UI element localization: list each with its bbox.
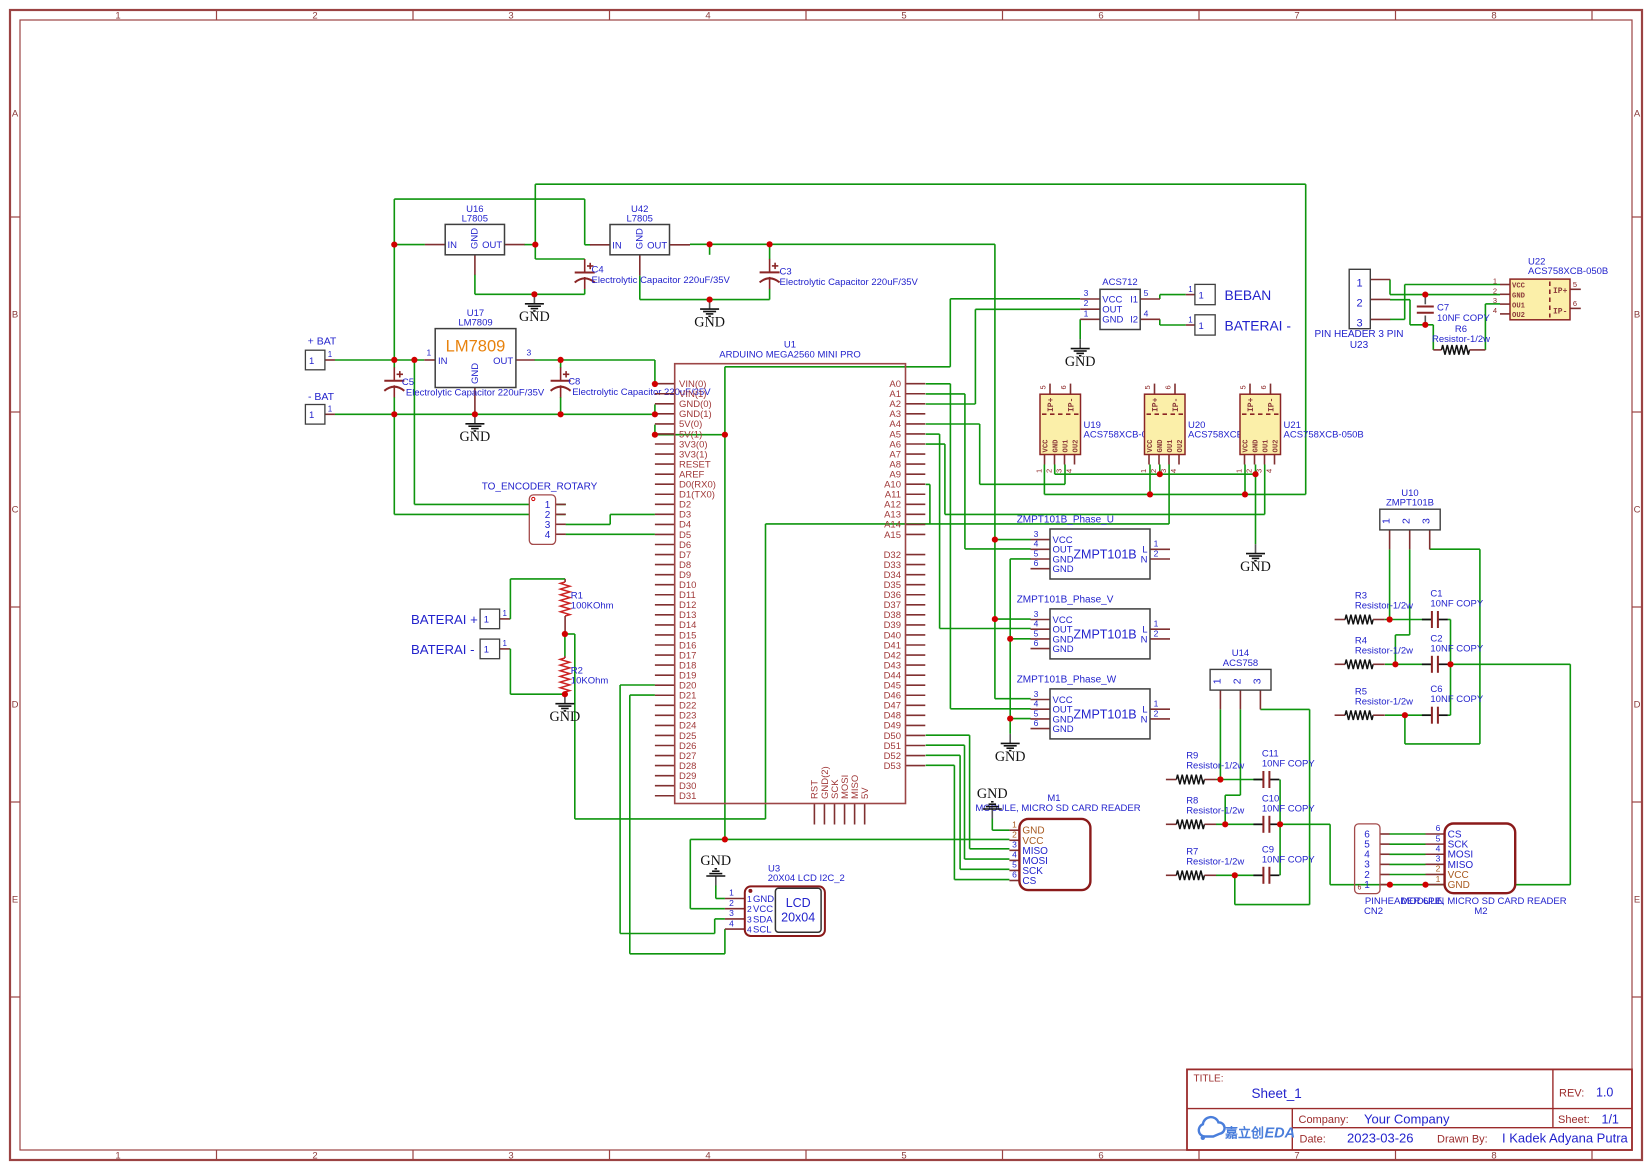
svg-text:E: E — [1634, 895, 1640, 906]
svg-text:1: 1 — [1154, 699, 1159, 709]
svg-text:Drawn By:: Drawn By: — [1437, 1134, 1488, 1146]
svg-text:3: 3 — [1034, 529, 1039, 539]
svg-text:1: 1 — [1188, 315, 1193, 324]
wire net GND main rail — [335, 404, 655, 514]
junction at 564.9,694.2 — [562, 691, 568, 697]
svg-text:1: 1 — [1436, 874, 1441, 884]
svg-text:2: 2 — [1149, 469, 1158, 473]
svg-text:2: 2 — [1012, 829, 1017, 839]
svg-text:6: 6 — [1573, 299, 1577, 308]
title block — [1187, 1069, 1632, 1150]
svg-text:C3: C3 — [780, 267, 792, 278]
svg-text:N: N — [1141, 634, 1148, 645]
wire net A4 to U19 OU1 — [926, 424, 1065, 484]
wire net U10 pin2 to R4/C2 — [1385, 549, 1432, 664]
svg-text:2: 2 — [1436, 864, 1441, 874]
svg-text:5: 5 — [1012, 860, 1017, 870]
svg-text:2: 2 — [747, 904, 752, 914]
junction at 709.6,299.6 — [707, 297, 713, 303]
svg-text:5: 5 — [1144, 288, 1149, 298]
svg-text:1: 1 — [1381, 518, 1393, 524]
wire net U23 pin2 / C7 bottom / R6 left — [1390, 300, 1433, 350]
wire net encoder pin3 to D3 — [566, 514, 655, 524]
svg-text:C4: C4 — [592, 265, 604, 276]
junction at 1425.5,884.7 — [1422, 882, 1428, 888]
svg-text:D31: D31 — [679, 791, 696, 802]
svg-text:3: 3 — [1421, 518, 1433, 524]
resistor R6 — [1432, 324, 1490, 355]
svg-text:C8: C8 — [568, 376, 580, 387]
wire net D21 to LCD SCL — [630, 695, 725, 954]
wire net R6 right to U22 OU1 — [1485, 304, 1500, 350]
svg-text:10NF COPY: 10NF COPY — [1430, 643, 1483, 654]
junction at 1234.8,875.3 — [1232, 872, 1238, 878]
capacitor C8 220uF — [551, 360, 712, 414]
svg-text:M2: M2 — [1474, 906, 1487, 917]
ground under U21 — [1240, 544, 1271, 575]
svg-text:4: 4 — [1034, 539, 1039, 549]
junction at 724.9,434.7 — [722, 432, 728, 438]
junction at 564.9,634.0 — [562, 631, 568, 637]
svg-text:ZMPT101B: ZMPT101B — [1073, 627, 1136, 641]
svg-text:1: 1 — [1154, 539, 1159, 549]
capacitor C4 220uF — [575, 259, 731, 294]
MCU U1 ARDUINO MEGA2560 MINI PRO — [655, 340, 925, 825]
svg-text:OU2: OU2 — [1273, 440, 1281, 453]
wire net C1/C2/C6 right bus — [1448, 620, 1451, 716]
svg-text:2: 2 — [1045, 469, 1054, 473]
svg-text:VCC: VCC — [1512, 283, 1526, 291]
svg-text:ACS758XCB-050B: ACS758XCB-050B — [1284, 430, 1364, 441]
resistor R2 10KOhm — [560, 634, 608, 694]
wire net M1 GND — [992, 819, 1009, 831]
svg-text:Electrolytic Capacitor 220uF/3: Electrolytic Capacitor 220uF/35V — [406, 388, 545, 399]
svg-text:1: 1 — [502, 609, 507, 618]
junction at 1010.2,718.6 — [1007, 716, 1013, 722]
resistor R9 — [1166, 751, 1245, 785]
svg-text:IP+: IP+ — [1247, 397, 1256, 412]
svg-text:C7: C7 — [1437, 302, 1449, 313]
ground under R2 — [550, 694, 581, 725]
svg-text:OU2: OU2 — [1512, 312, 1525, 320]
svg-text:VCC: VCC — [1147, 439, 1155, 453]
svg-text:1: 1 — [1139, 469, 1148, 473]
capacitor C9 10NF — [1253, 844, 1315, 884]
svg-text:10NF COPY: 10NF COPY — [1262, 854, 1315, 865]
svg-text:IN: IN — [612, 240, 622, 251]
svg-text:Sheet:: Sheet: — [1558, 1114, 1590, 1126]
svg-text:3: 3 — [1357, 318, 1363, 330]
svg-text:Resistor-1/2w: Resistor-1/2w — [1186, 806, 1244, 817]
svg-text:4: 4 — [1169, 469, 1178, 473]
svg-text:4: 4 — [1436, 843, 1441, 853]
svg-text:I Kadek Adyana Putra: I Kadek Adyana Putra — [1502, 1131, 1629, 1146]
svg-text:GND: GND — [694, 315, 725, 331]
capacitor C6 10NF — [1422, 684, 1484, 724]
wire net A0 to ZMPT phase W OUT — [926, 384, 1031, 709]
svg-text:GND: GND — [1512, 293, 1526, 301]
svg-text:OU1: OU1 — [1263, 439, 1271, 453]
svg-text:IP+: IP+ — [1152, 397, 1161, 412]
connector CN2 PINHEADER 6PIN — [1355, 824, 1445, 917]
wire net A5 to ZMPT phase V OUT — [926, 434, 1031, 628]
voltage sensor ZMPT101B_Phase_V — [1017, 594, 1170, 659]
current sensor U22 ACS758XCB-050B — [1493, 257, 1608, 321]
junction at 1450.5,664.3 — [1447, 661, 1453, 667]
svg-text:4: 4 — [729, 918, 734, 928]
junction at 654.9,434.7 — [652, 432, 658, 438]
svg-text:1: 1 — [1493, 277, 1497, 286]
capacitor C2 10NF — [1422, 633, 1484, 673]
svg-text:GND: GND — [1053, 564, 1074, 575]
svg-text:1/1: 1/1 — [1602, 1113, 1619, 1127]
svg-text:N: N — [1141, 554, 1148, 565]
svg-text:2: 2 — [1231, 678, 1243, 684]
svg-text:1.0: 1.0 — [1596, 1086, 1613, 1100]
svg-text:2: 2 — [1493, 286, 1497, 295]
junction at 1010.2,638.8 — [1007, 636, 1013, 642]
svg-text:OU2: OU2 — [1073, 440, 1081, 453]
wire net A10 stub to A14 net — [926, 484, 930, 524]
junction at 709.6,244.3 — [707, 241, 713, 247]
svg-text:GND: GND — [1053, 644, 1074, 655]
wire net U42 GND — [640, 276, 770, 300]
ground above LCD — [700, 853, 731, 886]
svg-text:5: 5 — [1034, 548, 1039, 558]
ground under U16 — [519, 294, 550, 325]
svg-text:5: 5 — [901, 1151, 906, 1162]
svg-text:6: 6 — [1034, 718, 1039, 728]
svg-text:8: 8 — [1491, 1151, 1496, 1162]
wire net C9/C10/C11 right bus — [1279, 780, 1281, 876]
svg-text:8: 8 — [1491, 11, 1496, 22]
wire net ACS712 I1 to BEBAN — [1160, 295, 1186, 299]
svg-text:GND: GND — [1448, 880, 1470, 891]
junction at 1425.3,324.8 — [1422, 322, 1428, 328]
svg-text:4: 4 — [1034, 619, 1039, 629]
svg-text:7: 7 — [1294, 1151, 1299, 1162]
svg-text:CN2: CN2 — [1364, 906, 1383, 917]
svg-text:10NF COPY: 10NF COPY — [1262, 759, 1315, 770]
svg-text:1: 1 — [1084, 308, 1089, 318]
port BEBAN — [1186, 284, 1271, 304]
wire net +BAT to U16/U17/U42 IN — [335, 199, 591, 504]
svg-text:E: E — [12, 895, 18, 906]
svg-text:1: 1 — [309, 410, 314, 421]
svg-text:6: 6 — [1059, 385, 1068, 389]
wire net encoder pin4 to D5 — [566, 533, 655, 535]
wire net U16 OUT / sensors VCC bus — [524, 184, 1305, 494]
wire net U23 pin1 to U22 GND / C7 top — [1390, 280, 1500, 295]
svg-text:1: 1 — [309, 356, 314, 367]
svg-text:3: 3 — [1055, 469, 1064, 473]
svg-text:Resistor-1/2w: Resistor-1/2w — [1186, 857, 1244, 868]
svg-text:IN: IN — [448, 240, 458, 251]
wire net LCD GND — [716, 886, 725, 899]
svg-text:3: 3 — [508, 11, 513, 22]
resistor R1 100KOhm — [560, 579, 613, 634]
svg-text:L7805: L7805 — [462, 213, 488, 224]
svg-text:I2: I2 — [1130, 315, 1138, 326]
junction at 1404.9,715.2 — [1402, 712, 1408, 718]
svg-text:ZMPT101B_Phase_V: ZMPT101B_Phase_V — [1017, 594, 1114, 605]
wire net ACS712 GND — [1079, 319, 1081, 339]
junction at 560.6,359.9 — [558, 357, 564, 363]
junction at 1255.5,474.2 — [1252, 471, 1258, 477]
junction at 1389.6,619.5 — [1387, 616, 1393, 622]
svg-text:3: 3 — [1084, 288, 1089, 298]
current sensor U19 ACS758XCB-050B — [1035, 384, 1164, 473]
svg-text:1: 1 — [1012, 819, 1017, 829]
current sensor U21 ACS758XCB-050B — [1235, 384, 1364, 473]
wire net BATERAI- to R2 bottom GND — [510, 649, 565, 694]
svg-text:IP-: IP- — [1172, 398, 1181, 412]
svg-text:4: 4 — [747, 925, 752, 935]
resistor R7 — [1166, 847, 1245, 881]
svg-text:6: 6 — [1034, 558, 1039, 568]
svg-text:2: 2 — [1401, 518, 1413, 524]
wire net D51 to M1 MOSI — [926, 745, 1010, 859]
svg-text:U23: U23 — [1350, 340, 1369, 351]
capacitor C11 10NF — [1253, 749, 1315, 789]
junction at 1280.1,824.3 — [1277, 821, 1283, 827]
svg-text:Electrolytic Capacitor 220uF/3: Electrolytic Capacitor 220uF/35V — [592, 275, 731, 286]
capacitor C1 10NF — [1422, 589, 1484, 629]
svg-text:GND: GND — [635, 228, 646, 249]
svg-text:1: 1 — [1188, 285, 1193, 294]
svg-text:3: 3 — [1034, 609, 1039, 619]
svg-text:6: 6 — [1098, 1151, 1103, 1162]
voltage sensor ZMPT101B_Phase_U — [1017, 515, 1170, 580]
svg-text:6: 6 — [1259, 385, 1268, 389]
wire net U42 OUT / ZMPT VCC — [690, 244, 1031, 698]
capacitor C7 10NF — [1417, 295, 1491, 325]
junction at 1159.8,474.2 — [1157, 471, 1163, 477]
svg-text:6: 6 — [1436, 823, 1441, 833]
svg-text:3: 3 — [1436, 854, 1441, 864]
display U3 20X04 LCD I2C_2 — [725, 864, 845, 937]
svg-text:2: 2 — [1154, 628, 1159, 638]
svg-text:SCL: SCL — [753, 925, 771, 936]
port BATERAI- — [411, 639, 510, 659]
svg-text:Resistor-1/2w: Resistor-1/2w — [1355, 601, 1413, 612]
svg-text:2: 2 — [1245, 469, 1254, 473]
wire net ACS712 OUT to A2 — [926, 309, 1080, 404]
svg-text:2: 2 — [1084, 298, 1089, 308]
svg-text:4: 4 — [1265, 469, 1274, 473]
svg-text:4: 4 — [705, 1151, 710, 1162]
svg-text:3: 3 — [1012, 840, 1017, 850]
wire net U23 pin3 to U22 VCC — [1390, 285, 1500, 320]
svg-text:A15: A15 — [884, 530, 901, 541]
port +BAT — [305, 336, 337, 370]
logo JLC EDA — [1199, 1117, 1295, 1141]
svg-text:Resistor-1/2w: Resistor-1/2w — [1186, 761, 1244, 772]
port -BAT — [305, 391, 335, 424]
svg-text:1: 1 — [328, 405, 333, 414]
svg-text:GND: GND — [977, 786, 1008, 802]
svg-text:Date:: Date: — [1300, 1134, 1326, 1146]
svg-text:1: 1 — [1235, 469, 1244, 473]
svg-text:1: 1 — [427, 347, 432, 357]
svg-text:OUT: OUT — [482, 240, 502, 251]
svg-text:3: 3 — [1493, 296, 1497, 305]
svg-text:1: 1 — [328, 350, 333, 359]
svg-text:GND: GND — [1253, 439, 1261, 453]
svg-text:IN: IN — [438, 356, 448, 367]
junction at 1225.2,824.3 — [1222, 821, 1228, 827]
junction at 394.3,414.3 — [391, 411, 397, 417]
svg-text:IP-: IP- — [1268, 398, 1277, 412]
junction at 654.9,384.0 — [652, 381, 658, 387]
svg-text:20X04 LCD I2C_2: 20X04 LCD I2C_2 — [768, 873, 845, 884]
junction at 654.9,414.3 — [652, 411, 658, 417]
wire net A14 / U20 OU1 / R divider sense — [565, 465, 1169, 819]
svg-text:5: 5 — [1039, 385, 1048, 389]
wire net U17 OUT / VIN — [534, 360, 655, 384]
svg-text:5V: 5V — [860, 787, 871, 799]
wire net D53 to M1 CS — [926, 765, 1010, 879]
svg-text:ZMPT101B_Phase_U: ZMPT101B_Phase_U — [1017, 515, 1114, 526]
svg-text:1: 1 — [1154, 619, 1159, 629]
svg-text:GND: GND — [470, 228, 481, 249]
wire net A1 to ZMPT phase U OUT — [926, 394, 1031, 549]
svg-text:1: 1 — [115, 11, 120, 22]
current sensor ACS712 — [1080, 277, 1160, 330]
svg-text:4: 4 — [1493, 306, 1497, 315]
svg-text:D53: D53 — [884, 761, 901, 772]
svg-text:GND: GND — [1053, 439, 1061, 453]
wire net D52 to M1 SCK — [926, 755, 1010, 869]
svg-text:2: 2 — [729, 898, 734, 908]
svg-text:2: 2 — [312, 11, 317, 22]
svg-text:1: 1 — [1357, 278, 1363, 290]
svg-text:IP-: IP- — [1553, 307, 1567, 316]
svg-text:GND: GND — [550, 709, 581, 725]
ground under ZMPT phase W — [995, 734, 1026, 765]
svg-text:A: A — [12, 109, 19, 120]
svg-text:4: 4 — [705, 11, 710, 22]
svg-text:PIN HEADER 3 PIN: PIN HEADER 3 PIN — [1315, 329, 1404, 340]
svg-text:7: 7 — [1294, 11, 1299, 22]
svg-text:BATERAI +: BATERAI + — [411, 612, 478, 627]
svg-text:L7805: L7805 — [626, 213, 652, 224]
svg-text:OU1: OU1 — [1167, 439, 1175, 453]
junction at 414.4,359.9 — [411, 357, 417, 363]
svg-text:20x04: 20x04 — [781, 911, 815, 925]
junction at 769.6,244.3 — [767, 241, 773, 247]
resistor R5 — [1335, 686, 1414, 720]
svg-text:嘉立创: 嘉立创 — [1224, 1126, 1264, 1141]
svg-text:Your Company: Your Company — [1364, 1112, 1450, 1127]
svg-text:+ BAT: + BAT — [308, 336, 337, 348]
svg-text:VCC: VCC — [1043, 439, 1051, 453]
svg-text:Resistor-1/2w: Resistor-1/2w — [1355, 646, 1413, 657]
svg-text:BATERAI -: BATERAI - — [411, 642, 475, 657]
svg-text:CS: CS — [1022, 876, 1036, 887]
svg-text:3: 3 — [729, 908, 734, 918]
svg-text:Resistor-1/2w: Resistor-1/2w — [1355, 696, 1413, 707]
svg-text:TO_ENCODER_ROTARY: TO_ENCODER_ROTARY — [482, 482, 598, 493]
svg-text:6: 6 — [1012, 870, 1017, 880]
svg-text:GND: GND — [1240, 559, 1271, 575]
ground under ACS712 — [1065, 339, 1096, 370]
current sensor U20 ACS758XCB-050B — [1139, 384, 1268, 473]
svg-text:LM7809: LM7809 — [446, 338, 506, 356]
junction at 1245.0,494.4 — [1242, 491, 1248, 497]
svg-text:1: 1 — [729, 888, 734, 898]
svg-text:2: 2 — [1154, 548, 1159, 558]
junction at 534.4,294.3 — [531, 291, 537, 297]
resistor R3 — [1335, 591, 1414, 625]
svg-text:ACS758: ACS758 — [1223, 658, 1258, 669]
svg-text:GND: GND — [1065, 354, 1096, 370]
svg-text:4: 4 — [1065, 469, 1074, 473]
svg-text:GND: GND — [470, 363, 481, 384]
connector U14 ACS758 header — [1210, 648, 1271, 709]
svg-text:BATERAI -: BATERAI - — [1225, 318, 1291, 333]
junction at 1389.9,884.7 — [1387, 882, 1393, 888]
wire net A6 to U21 OU1 — [926, 444, 1265, 514]
svg-text:REV:: REV: — [1559, 1088, 1584, 1100]
port BATERAI+ — [411, 609, 510, 629]
capacitor C10 10NF — [1253, 793, 1315, 833]
svg-text:1: 1 — [1364, 880, 1370, 891]
svg-text:ZMPT101B: ZMPT101B — [1386, 498, 1434, 509]
regulator U17 LM7809 — [424, 308, 534, 414]
wire net U14 pin2 to R8/C10 — [1216, 709, 1263, 824]
svg-text:D: D — [12, 700, 19, 711]
wire net C10 right to M2/CN2 GND row — [1280, 824, 1570, 884]
svg-text:1: 1 — [484, 615, 489, 626]
port BATERAI- load — [1186, 315, 1291, 335]
junction at 394.3,244.6 — [391, 242, 397, 248]
module M2 MICRO SD CARD READER — [1401, 823, 1566, 917]
svg-text:IP-: IP- — [1068, 398, 1077, 412]
svg-text:LM7809: LM7809 — [458, 318, 492, 329]
svg-text:5: 5 — [1436, 833, 1441, 843]
resistor R4 — [1335, 636, 1414, 670]
svg-text:1: 1 — [747, 894, 752, 904]
resistor R8 — [1166, 796, 1245, 830]
svg-text:5: 5 — [1143, 385, 1152, 389]
svg-text:4: 4 — [545, 530, 551, 541]
svg-text:N: N — [1141, 714, 1148, 725]
svg-text:OUT: OUT — [493, 356, 513, 367]
svg-text:ZMPT101B_Phase_W: ZMPT101B_Phase_W — [1017, 674, 1117, 685]
svg-text:- BAT: - BAT — [308, 391, 335, 403]
svg-text:2: 2 — [1357, 298, 1363, 310]
ground under U42/C3 — [694, 300, 725, 331]
svg-text:I1: I1 — [1130, 294, 1138, 305]
svg-text:GND: GND — [995, 749, 1026, 765]
junction at 474.9,414.3 — [472, 411, 478, 417]
wire net U10 pin1 to R3/C1 — [1385, 549, 1432, 619]
junction at 994.9,619.1 — [992, 616, 998, 622]
svg-text:ZMPT101B: ZMPT101B — [1073, 707, 1136, 721]
wire net D50 to M1 MISO — [926, 735, 1010, 849]
wire net ACS712 I2 to BATERAI- port — [1160, 319, 1186, 325]
svg-text:GND: GND — [1102, 315, 1123, 326]
junction at 1425.3,294.6 — [1422, 292, 1428, 298]
svg-text:6: 6 — [1034, 638, 1039, 648]
connector TO_ENCODER_ROTARY — [482, 482, 598, 545]
svg-text:4: 4 — [1012, 850, 1017, 860]
voltage sensor ZMPT101B_Phase_W — [1017, 674, 1170, 739]
junction at 394.3,359.9 — [391, 357, 397, 363]
svg-text:VCC: VCC — [1243, 439, 1251, 453]
wire net ZMPT GND bus — [1010, 559, 1030, 734]
